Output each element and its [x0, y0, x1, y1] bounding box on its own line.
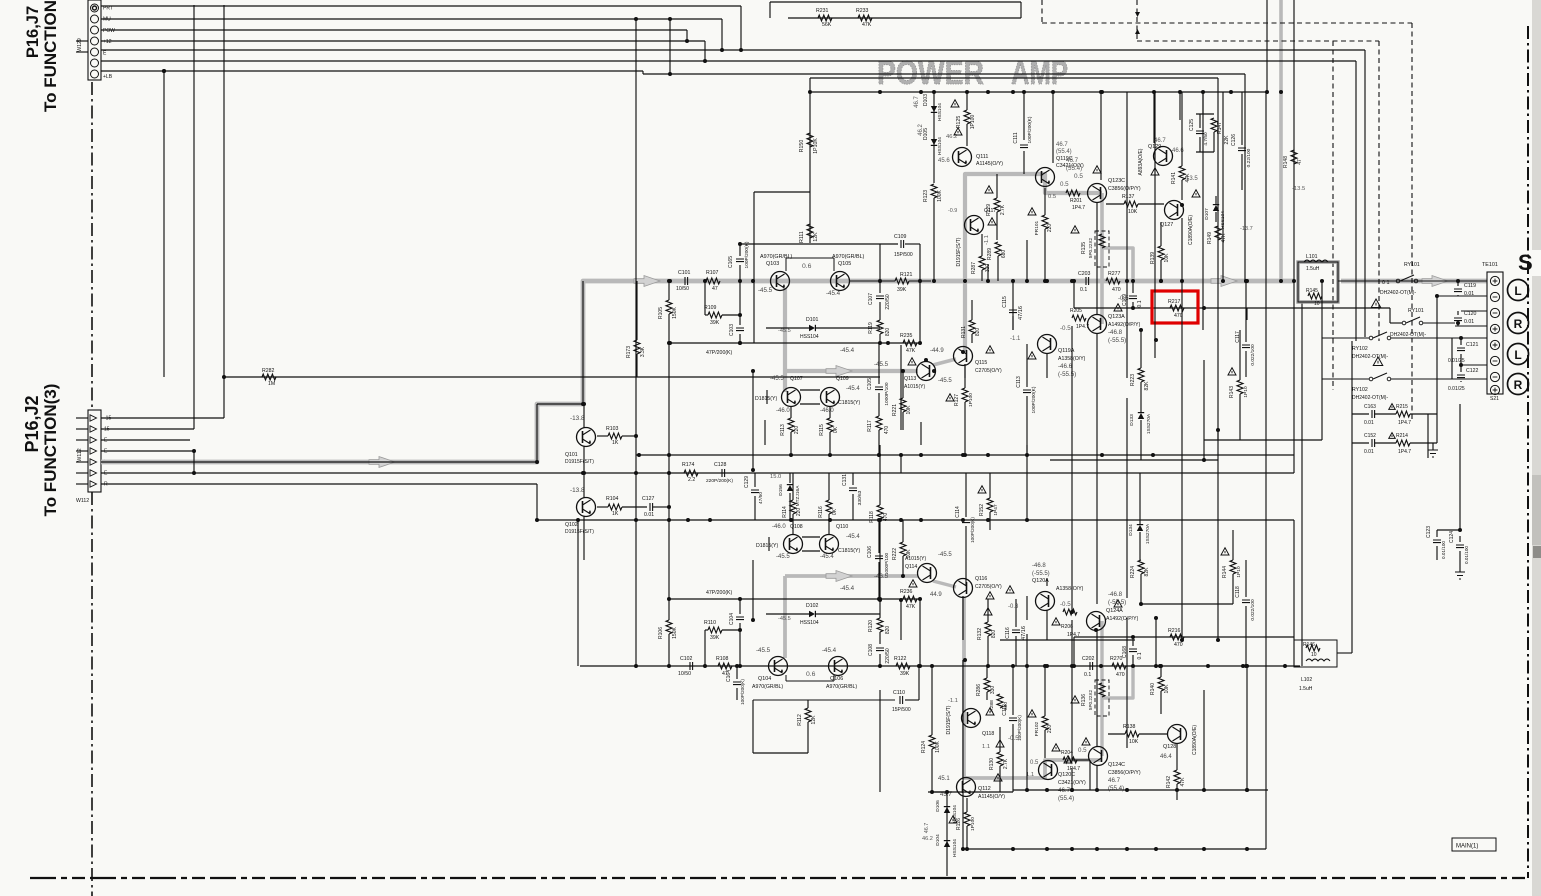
diode D102: [809, 611, 815, 617]
svg-text:47/50: 47/50: [758, 492, 764, 504]
svg-text:R206: R206: [1061, 624, 1073, 630]
svg-text:R233: R233: [856, 8, 869, 14]
svg-text:-46.0: -46.0: [772, 524, 786, 530]
resistor R113: [788, 418, 794, 432]
svg-text:R146: R146: [1303, 642, 1315, 648]
wire v1204 bottom: [1203, 360, 1205, 460]
signal path arrow 6: [826, 571, 852, 582]
svg-text:L: L: [1514, 348, 1521, 362]
resistor R216: [1170, 634, 1184, 640]
resistor R149 top: [1215, 226, 1221, 240]
svg-text:46.7: 46.7: [924, 823, 930, 834]
svg-text:220: 220: [1047, 224, 1053, 233]
svg-text:(-55.5): (-55.5): [1108, 337, 1126, 344]
svg-text:Q127: Q127: [1160, 222, 1173, 228]
diode D107: [1213, 205, 1219, 211]
resistor R289: [995, 242, 1001, 256]
wire top box R231: [770, 1, 1021, 3]
svg-text:1000P/100: 1000P/100: [884, 552, 889, 575]
svg-text:RY102: RY102: [1352, 346, 1368, 352]
signal path bottom link: [1102, 666, 1133, 698]
resistor FR101: [1042, 215, 1048, 229]
svg-text:Q128: Q128: [1163, 744, 1176, 750]
output jack L1: [1508, 280, 1529, 301]
svg-text:47K: 47K: [862, 22, 872, 28]
svg-text:47K: 47K: [1180, 777, 1186, 787]
svg-text:(55.4): (55.4): [1108, 785, 1124, 792]
rail y520: [537, 519, 1294, 521]
wire v1155 long: [1154, 92, 1156, 358]
svg-text:-46.8: -46.8: [1032, 563, 1046, 569]
signal path Q113 Q115 link: [933, 359, 956, 365]
wire v963 bottom: [962, 660, 964, 849]
svg-text:45.1: 45.1: [938, 776, 950, 782]
svg-text:R235: R235: [900, 333, 913, 339]
capacitor C110: [900, 696, 903, 704]
resistor R173: [634, 340, 640, 354]
svg-text:To FUNCTION: To FUNCTION: [41, 0, 60, 112]
svg-text:Q124C: Q124C: [1108, 762, 1125, 768]
svg-text:R113: R113: [780, 424, 786, 436]
diode D156: [787, 485, 793, 491]
wire R130: [999, 727, 1001, 752]
wire Q107 Q109 link: [800, 389, 820, 391]
rail y440 right: [1204, 439, 1322, 441]
svg-text:A1492(O/P/Y): A1492(O/P/Y): [1106, 616, 1139, 622]
wire R127: [964, 366, 966, 388]
wire v810 bias chain: [809, 78, 811, 243]
svg-text:R148: R148: [1283, 156, 1289, 168]
svg-text:D1915F(S/T): D1915F(S/T): [565, 529, 594, 535]
svg-text:Q114: Q114: [905, 564, 917, 570]
svg-text:+12: +12: [103, 39, 112, 45]
signal path Q104 rise: [783, 576, 787, 658]
svg-text:220/50: 220/50: [885, 294, 891, 310]
svg-text:R288: R288: [989, 700, 995, 712]
svg-text:Q101: Q101: [565, 452, 578, 458]
svg-text:0.1: 0.1: [1080, 287, 1087, 293]
svg-text:0.5: 0.5: [1060, 181, 1069, 188]
svg-text:(-55.5): (-55.5): [1032, 571, 1050, 577]
wire v1203: [1202, 92, 1204, 330]
wire D102 row: [766, 613, 809, 615]
resistor R221: [900, 398, 906, 412]
wire mid caps: [754, 473, 756, 487]
wire FR101: [1044, 188, 1046, 215]
capacitor C164: [733, 682, 741, 685]
resistor R153 2: [1138, 560, 1144, 574]
svg-text:3.3K: 3.3K: [640, 346, 646, 357]
junctions bottom rail: [1099, 664, 1103, 668]
signal path driver stage top: [965, 174, 1102, 352]
svg-text:R231: R231: [816, 8, 829, 14]
svg-text:R123: R123: [923, 190, 929, 202]
resistor R143: [1237, 380, 1243, 394]
svg-text:R115: R115: [819, 424, 825, 436]
svg-text:820: 820: [991, 630, 997, 639]
signal path arrow 3: [1211, 276, 1237, 287]
svg-text:4.7/50: 4.7/50: [1203, 132, 1209, 146]
capacitor C114: [962, 520, 970, 523]
svg-text:R236: R236: [900, 589, 913, 595]
resistor R222: [900, 542, 906, 556]
mid row rail bottom 599: [669, 598, 920, 600]
wire C120 link: [1455, 325, 1487, 327]
wire R114: [792, 473, 794, 500]
resistor R233: [858, 15, 872, 21]
wire v1047 links: [1046, 353, 1048, 378]
resistor R205: [1072, 315, 1086, 321]
wire C115: [1012, 281, 1014, 307]
capacitor C118: [1242, 600, 1250, 603]
wire R: [101, 483, 537, 485]
rail y790 lower: [1013, 789, 1268, 791]
resistor R236: [903, 596, 917, 602]
svg-text:1P100: 1P100: [970, 817, 976, 831]
svg-text:46.7: 46.7: [1108, 777, 1121, 784]
wire C116: [1015, 599, 1017, 627]
svg-text:C104: C104: [729, 613, 735, 625]
capacitor C128: [722, 469, 725, 477]
junctions output line: [1159, 279, 1163, 283]
wire R142: [1176, 744, 1178, 770]
resistor R203 area C202: [1090, 662, 1093, 670]
resistor R111: [807, 224, 813, 238]
junctions rail 455: [637, 453, 641, 457]
wires right bias: [1196, 113, 1214, 115]
rail y640 mid-right: [1000, 639, 1135, 641]
svg-text:R111: R111: [799, 231, 805, 243]
svg-text:R215: R215: [1396, 404, 1408, 410]
resistor R105: [666, 300, 672, 314]
resistor R120: [877, 618, 883, 632]
svg-text:R223: R223: [1130, 374, 1136, 386]
svg-text:Q123A: Q123A: [1108, 314, 1125, 320]
wire L101 out: [1338, 280, 1487, 282]
svg-text:Q116: Q116: [975, 576, 987, 582]
svg-text:Q111: Q111: [976, 154, 988, 160]
svg-text:1SS270A: 1SS270A: [1145, 523, 1151, 544]
svg-text:(55.4): (55.4): [1058, 795, 1074, 802]
wire caps to ground: [1436, 530, 1438, 537]
svg-text:L101: L101: [1306, 254, 1318, 260]
wire snubber gnd: [1432, 443, 1434, 450]
svg-text:R145: R145: [1306, 288, 1318, 294]
svg-text:0.01: 0.01: [1364, 420, 1374, 426]
wire E1: [101, 439, 190, 441]
svg-text:C101: C101: [678, 270, 691, 276]
resistor R117: [876, 416, 882, 430]
svg-text:47K: 47K: [906, 348, 916, 354]
capacitor C105: [875, 387, 883, 390]
inductor L101 box: [1298, 262, 1338, 302]
wire v1154: [1153, 92, 1155, 143]
svg-text:-45.4: -45.4: [846, 534, 860, 540]
svg-text:R142: R142: [1166, 776, 1172, 788]
svg-text:R149: R149: [1207, 232, 1213, 244]
svg-text:-15: -15: [104, 416, 111, 422]
svg-text:-45.5: -45.5: [776, 554, 790, 560]
wire R110: [705, 629, 708, 631]
svg-text:100P/200(K): 100P/200(K): [744, 241, 750, 268]
svg-text:15: 15: [104, 427, 110, 433]
resistor R152: [987, 498, 993, 512]
svg-text:Q103: Q103: [766, 261, 779, 267]
transistor Q124C: [1089, 747, 1108, 766]
capacitor C121: [1457, 348, 1465, 351]
svg-text:-0.9: -0.9: [948, 208, 957, 214]
svg-text:L: L: [1514, 284, 1521, 298]
svg-text:47/16: 47/16: [1021, 626, 1027, 640]
wire snubber verticals: [1351, 341, 1353, 653]
transistor Q118: [962, 709, 981, 728]
svg-text:C125: C125: [1189, 119, 1195, 131]
wire v967 R125: [966, 92, 968, 110]
ground bottom right mid: [1455, 572, 1465, 579]
wire C118: [1245, 560, 1247, 597]
wire C112: [1012, 666, 1014, 715]
wire v921 span: [920, 422, 922, 445]
diode D106: [944, 807, 950, 813]
svg-text:10K: 10K: [1164, 253, 1170, 263]
svg-text:R270: R270: [1110, 656, 1123, 662]
svg-text:C119: C119: [1464, 283, 1476, 289]
resistor R119: [877, 320, 883, 334]
svg-text:1P100: 1P100: [970, 115, 976, 130]
wire R116: [828, 473, 830, 500]
connector P16,J2: [88, 410, 101, 492]
wire R117: [878, 430, 880, 455]
wire FR102: [1044, 666, 1046, 716]
resistor R107: [706, 278, 720, 284]
transistor Q117: [965, 216, 984, 235]
svg-text:R201: R201: [1070, 198, 1082, 204]
wire Q103 base net: [753, 192, 755, 343]
svg-text:12K: 12K: [813, 232, 819, 242]
wire R144: [1232, 530, 1234, 560]
svg-text:(-55.5): (-55.5): [1108, 599, 1126, 606]
svg-text:2.2: 2.2: [688, 477, 695, 483]
wire R109: [705, 314, 708, 316]
wire v1223 mid: [1222, 205, 1224, 281]
wire v1101 top: [1100, 92, 1102, 180]
signal path Q114 Q116 link: [933, 581, 956, 587]
wire POW: [101, 29, 687, 31]
svg-text:C122: C122: [1466, 368, 1479, 374]
svg-text:Q115: Q115: [975, 360, 987, 366]
capacitor C124: [1456, 545, 1464, 548]
svg-text:470: 470: [883, 513, 889, 522]
bundle staircase verticals: [740, 6, 742, 50]
svg-text:47P/200(K): 47P/200(K): [706, 350, 733, 356]
svg-text:0.1: 0.1: [1137, 300, 1143, 307]
resistor R144: [1230, 560, 1236, 574]
wire v988 span: [987, 264, 989, 281]
svg-text:C103: C103: [729, 324, 735, 336]
transistor Q105: [831, 272, 850, 291]
svg-text:P16,J7: P16,J7: [24, 6, 42, 58]
svg-text:Q105: Q105: [838, 261, 851, 267]
resistor R231: [818, 15, 832, 21]
svg-text:680: 680: [1001, 250, 1007, 259]
svg-text:-46.6: -46.6: [1058, 363, 1073, 370]
svg-text:C3856(O/P/Y): C3856(O/P/Y): [1108, 186, 1141, 192]
svg-text:R: R: [1514, 378, 1523, 392]
svg-text:5P0.22X2: 5P0.22X2: [1088, 689, 1093, 710]
ground snubber: [1428, 450, 1438, 457]
diode D133: [1138, 413, 1144, 419]
svg-text:1.5uH: 1.5uH: [1306, 266, 1320, 272]
svg-text:D107: D107: [1204, 208, 1210, 220]
svg-text:S21: S21: [1490, 396, 1499, 402]
svg-text:D156: D156: [778, 484, 784, 496]
svg-text:R140: R140: [1150, 683, 1156, 695]
signal path bottom stage: [964, 597, 1102, 778]
wire L thin: [101, 461, 537, 463]
rail y92 positive supply: [812, 91, 1267, 93]
wire R106: [668, 599, 670, 620]
svg-text:R112: R112: [797, 714, 803, 726]
resistor R287: [979, 256, 985, 270]
signal path to output terminal: [1341, 279, 1487, 284]
svg-text:R: R: [1514, 317, 1523, 331]
svg-text:C106: C106: [867, 546, 873, 558]
svg-text:C163: C163: [1364, 404, 1376, 410]
wire v1097 spans: [1096, 202, 1098, 315]
transistor Q102: [577, 498, 596, 517]
wire 15: [101, 428, 194, 430]
transistor Q104: [769, 657, 788, 676]
svg-text:82K: 82K: [1144, 567, 1150, 577]
transistor Q111: [953, 148, 972, 167]
svg-text:(55.4): (55.4): [1066, 165, 1082, 172]
svg-text:RY101: RY101: [1408, 308, 1424, 314]
svg-text:-13.8: -13.8: [570, 415, 585, 422]
rail y849 bottom: [963, 848, 1266, 850]
transistor Q123C: [1088, 184, 1107, 203]
wire +12: [101, 40, 705, 42]
resistor R217 highlighted: [1170, 305, 1184, 311]
signal path bottom mid: [785, 574, 918, 578]
svg-text:-46.8: -46.8: [1108, 591, 1123, 598]
svg-text:46.2: 46.2: [922, 836, 933, 842]
svg-text:HSS104: HSS104: [800, 334, 819, 340]
capacitor C134 D134: [1137, 525, 1143, 531]
rail y666 main bottom: [580, 665, 1300, 667]
resistor FR102 bottom: [1042, 716, 1048, 730]
svg-text:10K: 10K: [1129, 739, 1139, 745]
svg-text:R173: R173: [626, 346, 632, 358]
svg-text:820: 820: [885, 626, 891, 635]
resistor R142: [1174, 770, 1180, 784]
svg-text:1P10: 1P10: [1236, 566, 1242, 578]
wire E2: [101, 450, 194, 452]
resistor R286: [984, 678, 990, 692]
svg-text:A1145(O/Y): A1145(O/Y): [978, 794, 1005, 800]
svg-text:-45.4: -45.4: [840, 585, 855, 592]
svg-text:D106: D106: [935, 800, 941, 812]
signal path arrow 1: [369, 457, 395, 468]
svg-text:0.5: 0.5: [1048, 194, 1056, 200]
relay RY101b: [1406, 317, 1420, 323]
svg-text:A970(GR/BL): A970(GR/BL): [760, 254, 793, 260]
svg-text:(-55.5): (-55.5): [1058, 371, 1076, 378]
resistor R277: [1106, 278, 1120, 284]
svg-text:Q102: Q102: [565, 522, 578, 528]
svg-text:R130: R130: [989, 758, 995, 770]
svg-text:R147: R147: [1217, 122, 1223, 134]
svg-text:C3856(O/P/Y): C3856(O/P/Y): [1108, 770, 1141, 776]
svg-text:DH2402-OT(M)-: DH2402-OT(M)-: [1380, 290, 1416, 296]
junction dots misc: [634, 434, 638, 438]
right page-edge gray strip: [1532, 0, 1541, 896]
svg-text:220: 220: [794, 426, 800, 435]
capacitor C165: [736, 259, 744, 262]
wire R286: [986, 666, 988, 678]
svg-text:R137: R137: [1122, 194, 1135, 200]
svg-text:46.2: 46.2: [918, 124, 924, 136]
svg-text:0K: 0K: [833, 426, 839, 433]
wire C107: [879, 281, 881, 293]
svg-text:C131: C131: [842, 474, 848, 486]
svg-text:R205: R205: [1070, 308, 1082, 314]
signal path arrow 5: [826, 366, 852, 377]
svg-text:C165: C165: [728, 256, 734, 268]
svg-text:-45.5: -45.5: [770, 376, 784, 382]
svg-text:820: 820: [975, 328, 981, 337]
svg-text:R174: R174: [682, 462, 695, 468]
svg-text:47P/200(K): 47P/200(K): [706, 590, 733, 596]
svg-text:470: 470: [1112, 287, 1121, 293]
resistor R115: [827, 418, 833, 432]
transistor Q114: [918, 564, 937, 583]
wire v1302 span: [1301, 302, 1303, 666]
terminal block TE101: [1487, 272, 1503, 394]
svg-text:FR102: FR102: [1034, 721, 1040, 736]
wire v1182 upper: [1181, 218, 1183, 281]
resistor R282: [262, 374, 276, 380]
signal path R136 through: [1100, 621, 1103, 756]
svg-text:R: R: [104, 482, 108, 488]
resistor R140: [1158, 677, 1164, 691]
svg-text:-1.1: -1.1: [984, 235, 990, 245]
svg-text:C110: C110: [893, 690, 905, 696]
svg-text:R126: R126: [956, 818, 962, 830]
wire v765 box: [764, 420, 766, 445]
junction +LB: [162, 69, 166, 73]
svg-text:C112: C112: [1002, 704, 1008, 716]
transistor Q127: [1165, 201, 1184, 220]
svg-text:Q123C: Q123C: [1108, 178, 1125, 184]
resistor R174: [684, 470, 698, 476]
wire v880 span: [879, 445, 881, 473]
rail y460: [1050, 459, 1218, 461]
wire R112: [807, 700, 809, 708]
capacitor C104: [736, 617, 744, 620]
svg-text:HSS104: HSS104: [952, 839, 958, 857]
wire R289: [997, 256, 999, 281]
svg-text:46.4: 46.4: [1160, 754, 1172, 760]
wire R139: [1160, 222, 1162, 246]
wire R126: [966, 798, 968, 812]
wire R104 C127: [597, 506, 608, 508]
Q104 Q106 lower box: [753, 699, 895, 701]
svg-text:R107: R107: [706, 270, 719, 276]
wire v753 span: [752, 371, 754, 470]
svg-text:100K: 100K: [935, 741, 941, 753]
svg-text:D1915F(S/T): D1915F(S/T): [946, 705, 952, 734]
svg-text:10: 10: [1311, 652, 1317, 658]
